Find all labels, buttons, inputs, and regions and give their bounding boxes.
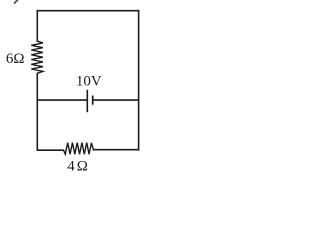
resistor R1 6Ω zigzag (31, 41, 43, 73)
stray mark (cropped character) top-left (15, 0, 18, 3)
wire left lower (36, 73, 38, 150)
wire middle right (battery to node) (93, 99, 138, 101)
svg-text:10V: 10V (76, 73, 102, 89)
svg-text:6Ω: 6Ω (6, 51, 25, 67)
wire top (37, 10, 138, 12)
resistor R2 4Ω zigzag (63, 143, 93, 155)
wire middle left (node to battery) (37, 99, 86, 101)
wire bottom right (93, 149, 138, 151)
battery V1 long plate (86, 91, 88, 112)
wire left upper (36, 11, 38, 42)
wire bottom left (37, 149, 63, 151)
wire right side (138, 11, 140, 150)
battery V1 short plate (92, 96, 94, 104)
svg-text:4Ω: 4Ω (67, 158, 90, 174)
